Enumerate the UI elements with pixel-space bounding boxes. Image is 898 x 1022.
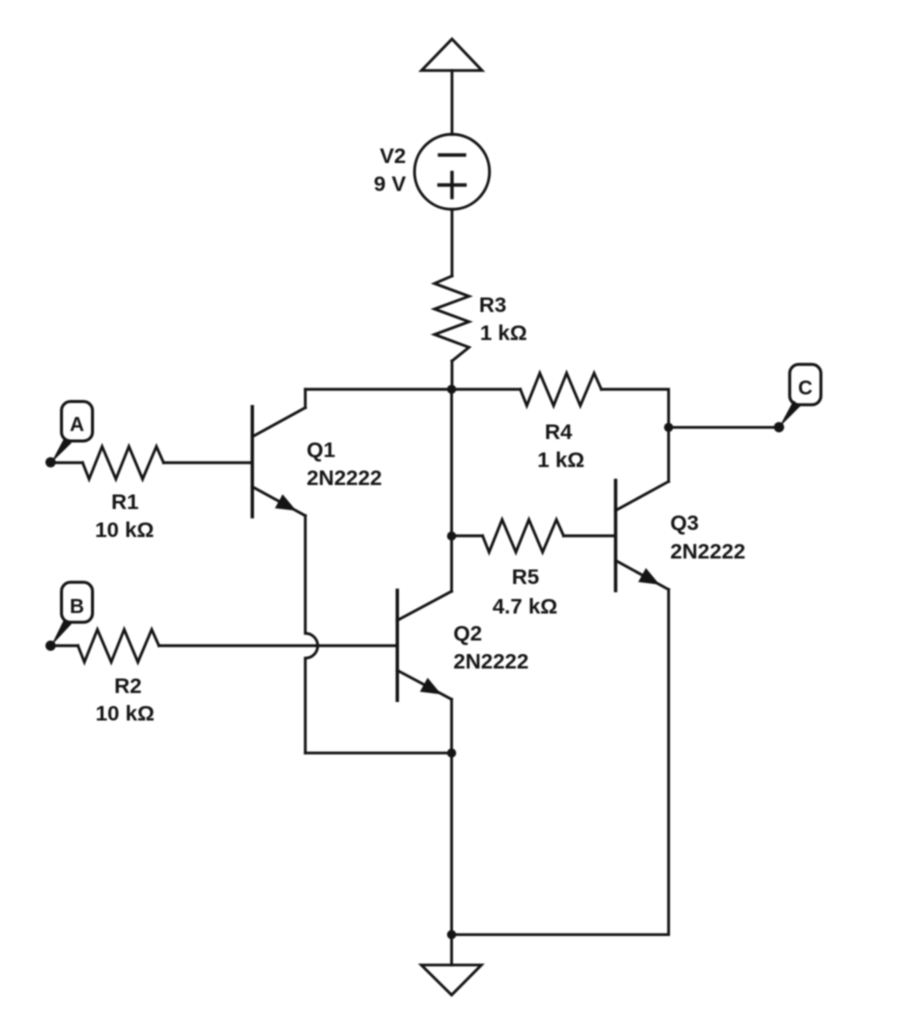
svg-text:R3: R3 bbox=[479, 293, 507, 317]
label R5 4.7 kOhm bbox=[492, 565, 557, 619]
node B box bbox=[62, 582, 93, 622]
svg-text:V2: V2 bbox=[380, 144, 406, 168]
svg-text:Q3: Q3 bbox=[670, 511, 699, 535]
svg-text:B: B bbox=[70, 596, 84, 618]
svg-text:A: A bbox=[70, 414, 84, 436]
wire A to R1 bbox=[51, 461, 83, 464]
svg-text:R2: R2 bbox=[114, 674, 142, 698]
svg-text:R4: R4 bbox=[545, 420, 573, 444]
svg-text:1 kΩ: 1 kΩ bbox=[480, 321, 527, 345]
node A letter bbox=[70, 414, 84, 436]
wire R5 left bbox=[452, 534, 483, 537]
wire R5 to Q3 base bbox=[564, 534, 616, 537]
power symbol VCC (up triangle) bbox=[422, 39, 483, 71]
svg-text:C: C bbox=[798, 378, 812, 400]
svg-text:10 kΩ: 10 kΩ bbox=[95, 518, 154, 542]
junction dot bottom left bbox=[447, 748, 456, 757]
wire R4 to corner down to C node bbox=[601, 389, 668, 427]
svg-text:1 kΩ: 1 kΩ bbox=[537, 448, 584, 472]
wire Q2 emitter down to bottom junction bbox=[450, 699, 453, 753]
transistor Q1 bbox=[252, 407, 305, 517]
svg-text:2N2222: 2N2222 bbox=[453, 650, 528, 674]
terminal dot C bbox=[774, 422, 784, 432]
wire center node down to R5 junction and Q2 collector bbox=[450, 389, 453, 536]
wire R3 to node bbox=[451, 361, 454, 390]
wire VCC to V2 top bbox=[451, 71, 454, 135]
svg-text:2N2222: 2N2222 bbox=[307, 466, 382, 490]
node A pointer bbox=[51, 438, 72, 464]
svg-text:R1: R1 bbox=[111, 490, 139, 514]
transistor Q2 bbox=[397, 590, 451, 700]
junction dot at Q3 collector bbox=[664, 423, 673, 432]
terminal dot B bbox=[45, 641, 55, 651]
wire V2 bottom to R3 bbox=[451, 209, 454, 276]
resistor R1 bbox=[83, 447, 164, 480]
junction dot R5 bbox=[447, 531, 456, 540]
label Q1 2N2222 bbox=[307, 438, 382, 490]
node C box bbox=[790, 364, 821, 404]
svg-text:4.7 kΩ: 4.7 kΩ bbox=[492, 595, 557, 619]
resistor R4 bbox=[520, 373, 601, 406]
label R3 1 kOhm bbox=[479, 293, 527, 345]
label R4 1 kOhm bbox=[537, 420, 584, 472]
svg-text:2N2222: 2N2222 bbox=[670, 540, 745, 564]
wire top rail (Q1 collector to R4) bbox=[305, 388, 520, 391]
svg-text:10 kΩ: 10 kΩ bbox=[95, 702, 154, 726]
node C letter bbox=[798, 378, 812, 400]
resistor R2 bbox=[78, 630, 159, 663]
transistor Q3 bbox=[616, 481, 669, 591]
junction dot top rail bbox=[447, 385, 456, 394]
wire Q3 emitter down bbox=[667, 590, 670, 935]
wire bottom rail bbox=[452, 933, 669, 936]
terminal dot A bbox=[45, 457, 55, 467]
svg-text:Q1: Q1 bbox=[307, 438, 336, 462]
svg-text:Q2: Q2 bbox=[453, 622, 482, 646]
wire R2 to Q2 base bbox=[159, 644, 397, 647]
node C pointer bbox=[779, 401, 801, 428]
wire Q3 collector up to junction bbox=[667, 427, 670, 481]
node A box bbox=[62, 402, 93, 442]
node B letter bbox=[70, 596, 84, 618]
node B pointer bbox=[51, 619, 72, 647]
voltage source V2 bbox=[415, 134, 490, 209]
label Q2 2N2222 bbox=[453, 622, 528, 674]
label R1 10 kOhm bbox=[95, 490, 154, 542]
label Q3 2N2222 bbox=[670, 511, 745, 564]
wire center down to ground rail bbox=[450, 753, 453, 935]
ground symbol bbox=[421, 935, 481, 995]
wire Q1 collector up bbox=[304, 389, 307, 407]
svg-text:9 V: 9 V bbox=[374, 172, 407, 196]
wire bottom left to center bbox=[305, 752, 451, 755]
wire to terminal C bbox=[669, 426, 779, 429]
resistor R3 bbox=[435, 276, 470, 361]
wire B to R2 bbox=[51, 644, 78, 647]
svg-text:R5: R5 bbox=[512, 565, 540, 589]
label R2 10 kOhm bbox=[95, 674, 154, 726]
wire Q1 emitter down with hop over R2 wire bbox=[305, 516, 317, 753]
label V2 9 V bbox=[374, 144, 407, 196]
resistor R5 bbox=[483, 520, 564, 553]
wire R1 to Q1 base bbox=[164, 461, 253, 464]
junction dot ground rail bbox=[447, 930, 456, 939]
